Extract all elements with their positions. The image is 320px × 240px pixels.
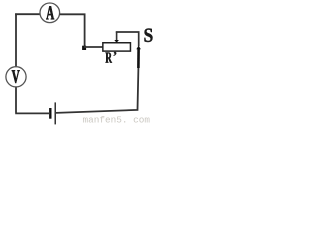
- junction dot: [82, 46, 86, 50]
- wire: left vertical segment (voltmeter to bottom corner): [15, 87, 17, 113]
- label R': [106, 52, 117, 63]
- voltmeter V: [6, 67, 26, 87]
- svg-text:manfen5. com: manfen5. com: [83, 115, 151, 126]
- wire: wiper up and right to switch top: [116, 32, 139, 46]
- battery: [50, 102, 55, 124]
- wire: battery to bottom-left corner: [15, 112, 50, 114]
- rheostat R' body: [103, 43, 131, 51]
- switch S: [136, 46, 141, 68]
- ammeter A: [40, 3, 60, 23]
- wire: ammeter to top-right corner and down: [60, 14, 85, 46]
- label S: [145, 29, 153, 43]
- wire: top-left horizontal (corner to ammeter): [15, 13, 40, 15]
- wire: switch down to bottom-right corner and left to battery: [56, 68, 138, 113]
- wire: left vertical segment (top corner to voltmeter): [15, 13, 17, 67]
- rheostat wiper arrow: [114, 32, 119, 43]
- wire: junction to rheostat: [84, 46, 104, 48]
